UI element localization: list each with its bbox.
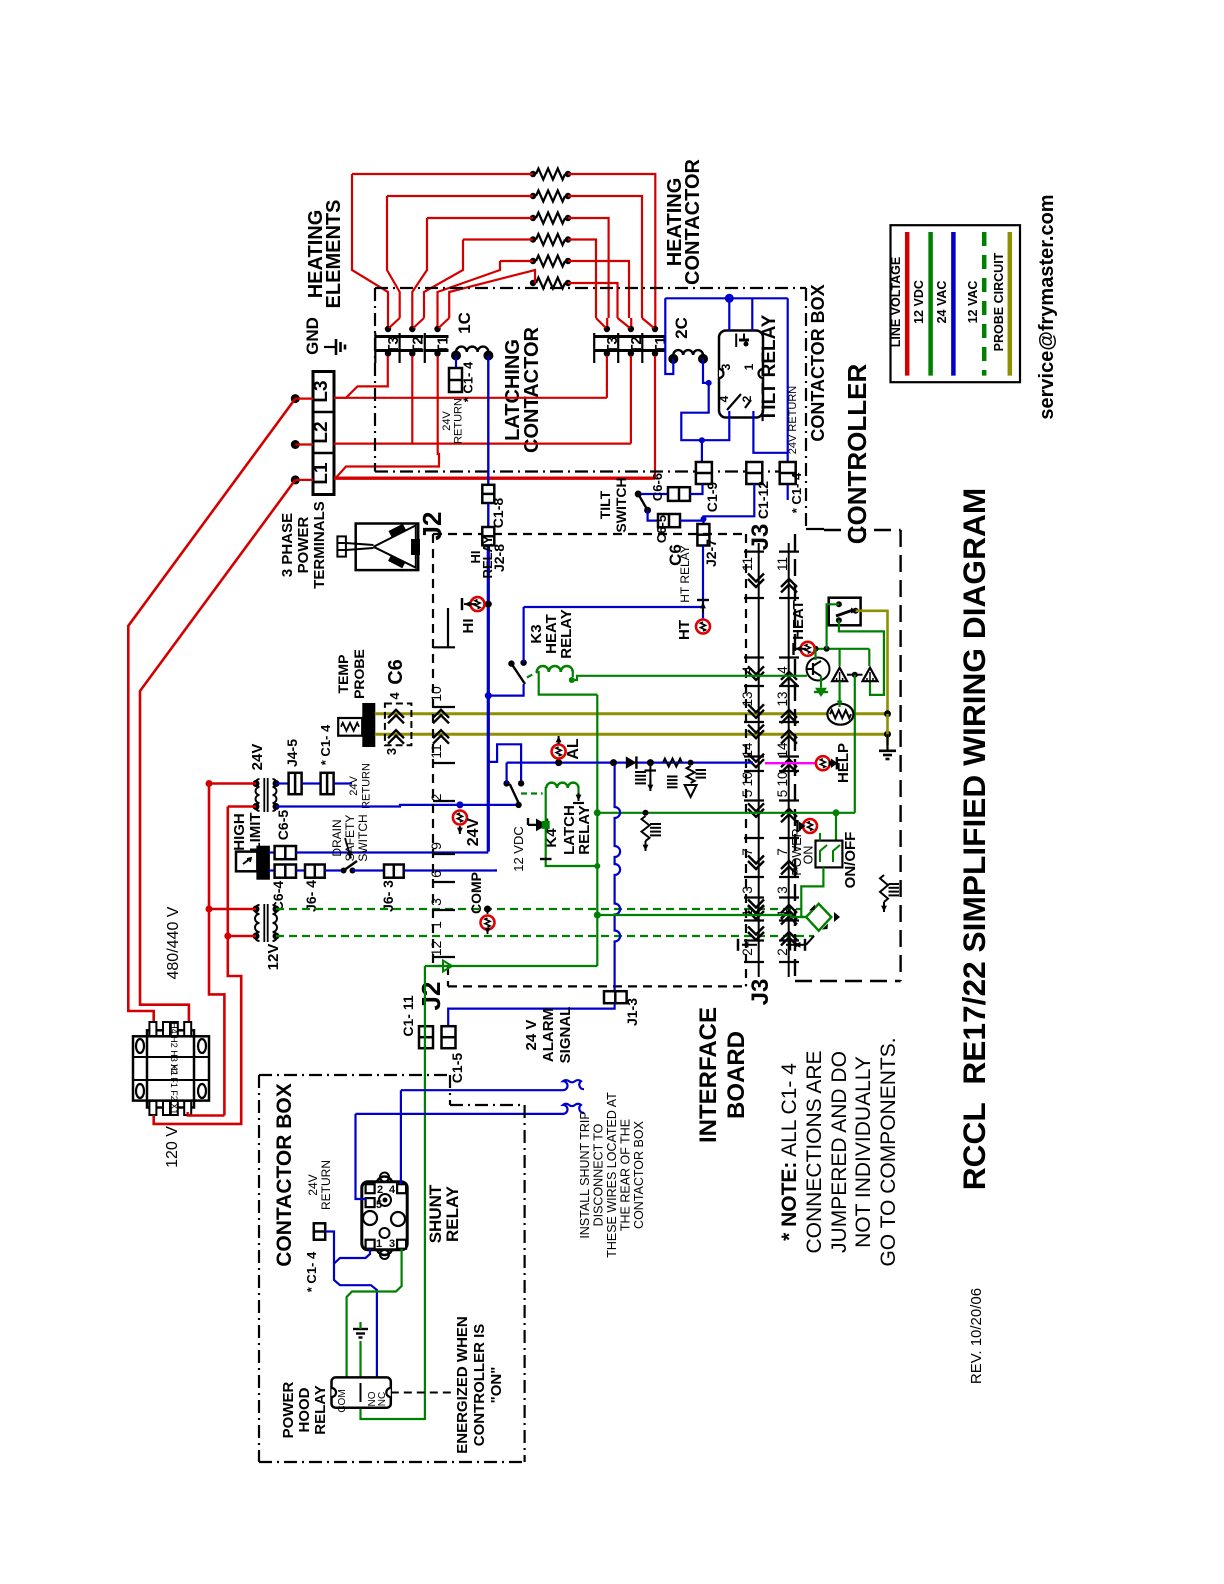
3 phase power terminals: [337, 536, 346, 556]
svg-text:5: 5: [376, 1199, 382, 1211]
bridge rectifier diamond: [806, 904, 831, 931]
dangle loads below diode row: [645, 769, 657, 771]
svg-text:11: 11: [775, 557, 790, 571]
K4 feed from main blue: [488, 744, 521, 783]
svg-text:1C: 1C: [455, 312, 474, 334]
wire alarm drop from diode row to J1-3: [615, 765, 621, 991]
wire K3 coil left to main green: [537, 672, 598, 695]
connector C1-8: [482, 485, 494, 503]
svg-text:BOARD: BOARD: [723, 1031, 750, 1119]
svg-text:HT RELAY: HT RELAY: [678, 545, 692, 603]
svg-text:3: 3: [389, 1238, 395, 1250]
svg-text:12 VDC: 12 VDC: [511, 826, 526, 872]
svg-text:12: 12: [428, 941, 444, 957]
tilt relay box: [719, 331, 763, 418]
ground symbol GND: [324, 346, 336, 348]
main blue 24V line: [487, 545, 490, 851]
wire 24VAC blue into tilt relay / 2C: [665, 297, 787, 299]
svg-text:LINE VOLTAGE: LINE VOLTAGE: [889, 257, 903, 348]
wire K3 coil to J3 pin4 green: [572, 676, 807, 680]
connector J2-8: [487, 503, 489, 527]
transformer 480/440V: [147, 1030, 194, 1107]
connector J4-5: [276, 782, 289, 784]
shunt relay body: [362, 1182, 407, 1250]
connector C1-11: [419, 1026, 433, 1048]
ground symbol (hood relay): [353, 1328, 368, 1330]
wire main green into power hood loop: [361, 1181, 425, 1419]
svg-text:RELAY: RELAY: [576, 805, 593, 854]
connector C6-4: [269, 869, 275, 871]
svg-text:C1-8: C1-8: [490, 498, 506, 529]
svg-text:24V: 24V: [465, 817, 482, 846]
svg-text:L3: L3: [311, 380, 332, 402]
node L3 dot: [291, 394, 300, 403]
connector C1-5: [442, 1026, 456, 1048]
svg-text:CONTACTOR BOX: CONTACTOR BOX: [808, 284, 828, 441]
callout dashed to ENERGIZED text: [391, 1392, 455, 1394]
power hood relay body: [332, 1377, 391, 1407]
svg-text:2: 2: [428, 793, 444, 801]
connector J2-7: [697, 524, 709, 546]
svg-text:J2-7: J2-7: [703, 539, 719, 567]
wire L1 heavy line to right T1: [334, 477, 655, 480]
svg-text:HOOD: HOOD: [296, 1387, 313, 1432]
svg-text:TILT RELAY: TILT RELAY: [759, 314, 780, 421]
svg-text:REV. 10/20/06: REV. 10/20/06: [968, 1288, 985, 1384]
wire 24V return via C1-4: [787, 298, 789, 462]
controller boundary: [794, 534, 796, 981]
wire L2 to left T2 and right T2: [411, 356, 413, 444]
LED 24V: [453, 811, 467, 825]
svg-text:ON/OFF: ON/OFF: [842, 832, 859, 889]
LED HI relay: [485, 601, 492, 608]
svg-text:12 VAC: 12 VAC: [966, 281, 980, 324]
svg-text:service@frymaster.com: service@frymaster.com: [1036, 194, 1058, 419]
svg-text:"ON": "ON": [488, 1367, 505, 1404]
L1 L2 L3 terminal block: [313, 372, 334, 495]
wire alarm to shunt terminals: [400, 1090, 402, 1184]
svg-text:14: 14: [775, 742, 790, 758]
node L1 dot: [291, 475, 300, 484]
svg-text:3: 3: [384, 748, 399, 755]
wire from triangles junction down to ON/OFF: [854, 675, 856, 813]
svg-text:10: 10: [428, 686, 444, 702]
coil K4: [546, 783, 578, 788]
wire heat relay contact to olive: [856, 611, 888, 714]
dangle load controller: [880, 875, 888, 902]
svg-text:DISCONNECT TO: DISCONNECT TO: [592, 1123, 606, 1226]
connector C1-4 (24V): [302, 782, 321, 784]
svg-text:24 V: 24 V: [523, 1020, 540, 1051]
wire drain switch line J2 pin 6: [404, 869, 496, 870]
wire AL LED row (J3 pin14): [507, 761, 753, 763]
wire heating elements right feeds: [568, 174, 655, 318]
green row to controller (J3 5/10): [594, 809, 601, 816]
wire 24VAC (2 row) across J2: [456, 801, 463, 808]
svg-text:24 VAC: 24 VAC: [935, 281, 949, 324]
triangles (diodes) T1 T2: [832, 668, 847, 682]
connector C1-9: [696, 462, 712, 484]
svg-text:RETURN: RETURN: [361, 763, 373, 809]
svg-text:11: 11: [740, 557, 755, 571]
main green vertical: [596, 695, 598, 966]
connector C6-5 (high limit): [269, 851, 275, 853]
svg-text:SWITCH: SWITCH: [356, 814, 370, 861]
svg-text:TERMINALS: TERMINALS: [311, 501, 328, 589]
svg-text:RETURN: RETURN: [319, 1160, 333, 1210]
svg-text:J1-3: J1-3: [624, 998, 640, 1026]
svg-text:COM: COM: [337, 1389, 348, 1412]
coil 1C latching contactor: [456, 347, 488, 352]
svg-text:J2: J2: [417, 512, 447, 541]
svg-text:4: 4: [717, 395, 731, 402]
connector J6-4: [296, 869, 305, 871]
LED POWER ON: [803, 819, 817, 833]
J2 connector boundary (interface board left): [432, 534, 434, 966]
thermistor circle on olive: [827, 704, 853, 725]
connector C1-4 (24V return): [780, 462, 796, 484]
svg-text:* C1- 4: * C1- 4: [304, 1251, 319, 1292]
svg-text:11: 11: [428, 744, 444, 759]
svg-text:1: 1: [376, 1238, 382, 1250]
olive junctions and ground: [884, 710, 891, 717]
svg-text:RCCL RE17/22 SIMPLIFIED WIRIN: RCCL RE17/22 SIMPLIFIED WIRING DIAGRAM: [956, 488, 992, 1190]
svg-text:L1: L1: [311, 462, 332, 485]
K3 heat relay switch: [485, 692, 492, 699]
wire K4 coil left to diode node: [546, 788, 598, 866]
svg-text:COMP: COMP: [468, 872, 484, 914]
svg-text:13: 13: [740, 691, 755, 706]
high limit: [236, 852, 257, 872]
svg-text:HT: HT: [676, 620, 693, 640]
svg-text:JUMPERED AND DO: JUMPERED AND DO: [828, 1051, 851, 1253]
svg-text:GO TO COMPONENTS.: GO TO COMPONENTS.: [877, 1037, 900, 1266]
svg-text:24V: 24V: [306, 1174, 320, 1195]
LED COMP: [484, 906, 491, 913]
wire ON/OFF to bridge: [801, 867, 823, 917]
legend box: [891, 225, 1021, 382]
svg-text:PROBE CIRCUIT: PROBE CIRCUIT: [992, 252, 1006, 351]
svg-text:C6-6: C6-6: [650, 473, 665, 501]
svg-text:HI: HI: [460, 619, 477, 634]
latching contactor contacts T3 T2 T1: [385, 326, 391, 332]
svg-text:TEMP: TEMP: [335, 655, 351, 694]
svg-text:POWER: POWER: [280, 1382, 297, 1439]
wire C6-5 to J2-7 node: [680, 519, 704, 521]
legend 12 VDC: [928, 232, 933, 376]
connector C6-6: [641, 493, 668, 495]
svg-text:RELAY: RELAY: [480, 535, 495, 578]
svg-text:CONTACTOR BOX: CONTACTOR BOX: [632, 1120, 646, 1229]
wire tilt relay pin2 to C1-4: [753, 411, 787, 453]
svg-text:CONTACTOR BOX: CONTACTOR BOX: [273, 1083, 296, 1267]
heating element resistor R6: [536, 278, 565, 289]
svg-text:3 PHASE: 3 PHASE: [279, 513, 296, 577]
svg-text:NC: NC: [377, 1392, 388, 1406]
svg-text:10: 10: [775, 771, 790, 786]
svg-text:HIGH: HIGH: [231, 813, 248, 851]
svg-text:7: 7: [775, 848, 790, 856]
tilt switch: [635, 491, 642, 498]
svg-text:5: 5: [775, 790, 790, 798]
wire C1-12 to J2-7 node: [704, 484, 755, 524]
svg-text:9: 9: [428, 842, 444, 850]
svg-text:10: 10: [740, 771, 755, 786]
transformer 12V: [255, 905, 260, 941]
svg-text:CONTROLLER: CONTROLLER: [842, 364, 872, 545]
wire shunt 3 green to hood relay COM: [347, 1249, 402, 1378]
svg-text:13: 13: [775, 691, 790, 706]
bridge output arrows: [834, 912, 840, 922]
svg-text:RETURN: RETURN: [453, 398, 465, 444]
wire L1 branch to left T1: [336, 356, 440, 478]
legend 12 VAC: [982, 232, 987, 376]
svg-text:HELP: HELP: [835, 743, 852, 783]
svg-text:TILT: TILT: [597, 490, 613, 519]
svg-text:2: 2: [740, 948, 755, 956]
svg-text:2: 2: [377, 1184, 383, 1196]
svg-text:* C1- 4: * C1- 4: [461, 361, 476, 402]
connector J6-3: [353, 869, 385, 871]
wire J1-3 to C1-5: [448, 1003, 614, 1026]
coil K3: [537, 666, 573, 672]
J3 pin2 black arrows: [742, 944, 757, 946]
connector C1-4 (latching coil): [455, 356, 457, 369]
heating element resistor R5: [536, 256, 565, 267]
svg-text:2: 2: [775, 948, 790, 956]
svg-text:C1-5: C1-5: [449, 1053, 465, 1084]
transformer 24V control: [256, 779, 260, 811]
svg-text:3: 3: [719, 363, 733, 370]
svg-text:PROBE: PROBE: [351, 649, 367, 699]
wire K4 coil right end return arrow: [577, 788, 579, 797]
svg-text:12V: 12V: [265, 944, 282, 971]
svg-text:C1-9: C1-9: [704, 482, 720, 513]
svg-text:C6-5: C6-5: [654, 515, 669, 543]
svg-text:SIGNAL: SIGNAL: [557, 1007, 574, 1064]
svg-text:POWER: POWER: [295, 517, 312, 574]
svg-text:3: 3: [428, 898, 444, 906]
wire C1-4 to shunt 1 and hood relay NO: [325, 1232, 334, 1264]
svg-text:3: 3: [775, 886, 790, 894]
ON/OFF switch: [833, 809, 840, 816]
probe circuit olive lines: [375, 712, 888, 715]
legend PROBE CIRCUIT: [1008, 232, 1013, 376]
svg-text:480/440 V: 480/440 V: [165, 906, 182, 979]
connector C6 (probe, dashed box): [385, 704, 412, 746]
wire heat relay bottom loop around triangle: [839, 620, 884, 695]
wire HT long blue line: [524, 606, 703, 608]
svg-text:DRAIN: DRAIN: [330, 819, 344, 856]
svg-text:* C1- 4: * C1- 4: [318, 724, 333, 765]
connector C6-5 (tilt): [648, 510, 658, 520]
wire tilt relay pin4 to C1-9: [702, 411, 729, 440]
svg-text:6: 6: [428, 870, 444, 878]
dangle load below green row: [643, 810, 649, 816]
wire 24VAC (2) to K4 pivot: continues right: [276, 805, 519, 807]
wire 2C coil right to C1-9: [703, 359, 709, 383]
svg-text:7: 7: [740, 848, 755, 856]
connector C1-12: [746, 462, 762, 484]
red bundle from L3/L1 to 480V transformer: [128, 399, 295, 1022]
node L2 dot: [291, 440, 300, 449]
J2 pin ticks and numbers: [447, 608, 449, 647]
svg-text:CONNECTIONS ARE: CONNECTIONS ARE: [803, 1050, 826, 1253]
svg-text:X2 F1 F2 X1: X2 F1 F2 X1: [169, 1064, 179, 1115]
wire HEAT led to relay box: [827, 604, 839, 649]
svg-text:RELAY: RELAY: [443, 1185, 462, 1242]
svg-text:J4-5: J4-5: [284, 739, 300, 767]
heating element resistor R1: [536, 169, 565, 180]
svg-text:1: 1: [742, 363, 756, 370]
svg-text:INSTALL SHUNT TRIP: INSTALL SHUNT TRIP: [578, 1111, 592, 1238]
svg-text:T1: T1: [435, 336, 452, 354]
contactor box boundary (dash-dot): [375, 287, 806, 289]
svg-text:12 VDC: 12 VDC: [912, 280, 926, 324]
svg-text:THE REAR OF THE: THE REAR OF THE: [619, 1119, 633, 1231]
svg-text:SWITCH: SWITCH: [613, 477, 629, 532]
wire high limit to J2 pin 9: [296, 851, 488, 853]
svg-text:J6- 3: J6- 3: [380, 880, 396, 912]
wire L3 to left T3 and right T3: [334, 356, 388, 398]
temp probe: [338, 718, 362, 736]
LED HELP + magenta: [765, 762, 830, 764]
wire 120V X1/X2 risers: [186, 1114, 188, 1117]
transistor symbol: [807, 658, 830, 681]
K4 latch relay switch: [503, 780, 509, 786]
svg-text:ON: ON: [802, 846, 816, 865]
svg-text:14: 14: [740, 742, 755, 758]
svg-text:5: 5: [740, 790, 755, 798]
wire J2-7 to HT relay junction: [702, 546, 704, 619]
wire heating elements left feeds: [352, 173, 533, 175]
contactor box (lower) boundary: [258, 1075, 260, 1462]
svg-text:C6-5: C6-5: [275, 810, 291, 841]
heating element resistor R3: [536, 213, 565, 224]
svg-text:C1-12: C1-12: [755, 481, 771, 519]
wire 12VAC dashed pair: [276, 908, 801, 910]
LED AL: [555, 759, 562, 766]
svg-text:J3: J3: [747, 524, 774, 551]
LED HEAT: [808, 648, 870, 650]
svg-text:C1- 11: C1- 11: [400, 995, 416, 1036]
svg-text:J2: J2: [416, 982, 446, 1011]
svg-text:J3: J3: [747, 979, 774, 1006]
svg-text:ELEMENTS: ELEMENTS: [323, 200, 345, 309]
svg-text:* C1- 4: * C1- 4: [789, 472, 804, 513]
svg-text:INTERFACE: INTERFACE: [695, 1007, 722, 1143]
svg-text:L2: L2: [311, 421, 332, 443]
wire main green to C1-11 and shunt relay: [425, 965, 597, 967]
heating contactor contacts T3 T2 T1: [604, 326, 610, 332]
svg-text:LIMIT: LIMIT: [247, 812, 264, 851]
wire latching coil blue to C1-8/J2-8: [487, 356, 489, 485]
svg-text:NOT INDIVIDUALLY: NOT INDIVIDUALLY: [852, 1056, 875, 1248]
drain safety switch: [325, 869, 344, 871]
connector C1-4 (shunt 24V return): [314, 1223, 325, 1239]
svg-text:SAFETY: SAFETY: [343, 815, 357, 862]
svg-text:24V RETURN: 24V RETURN: [787, 386, 799, 455]
svg-text:4: 4: [387, 692, 402, 700]
LED HT relay: [696, 620, 710, 634]
coil 2C heating contactor: [673, 350, 703, 355]
svg-text:J6- 4: J6- 4: [303, 880, 319, 912]
svg-text:HEAT: HEAT: [790, 600, 807, 640]
legend 24 VAC: [951, 232, 956, 376]
svg-text:24V: 24V: [441, 411, 453, 431]
connector J1-3: [604, 991, 627, 1003]
wire 24V alarm signal pair: [401, 1080, 584, 1090]
svg-text:THESE WIRES LOCATED AT: THESE WIRES LOCATED AT: [605, 1092, 619, 1258]
legend LINE VOLTAGE: [905, 232, 910, 376]
svg-text:2: 2: [740, 395, 754, 402]
svg-text:2C: 2C: [672, 317, 691, 339]
svg-text:4: 4: [389, 1184, 396, 1196]
heating element resistor R4: [536, 234, 565, 245]
svg-text:RELAY: RELAY: [558, 609, 575, 658]
svg-text:AL: AL: [565, 738, 582, 760]
svg-text:CONTACTOR: CONTACTOR: [521, 326, 543, 452]
diode row right of AL: [610, 759, 617, 766]
svg-text:* NOTE: ALL C1- 4: * NOTE: ALL C1- 4: [778, 1063, 801, 1241]
svg-text:GND: GND: [303, 317, 322, 355]
svg-text:3: 3: [740, 886, 755, 894]
J3 columns: [758, 543, 760, 977]
svg-text:ALARM: ALARM: [540, 1008, 557, 1062]
svg-text:24V: 24V: [249, 744, 266, 771]
svg-text:C6: C6: [385, 659, 407, 685]
svg-text:1: 1: [428, 921, 444, 929]
svg-text:CONTACTOR: CONTACTOR: [682, 158, 704, 284]
svg-text:24V: 24V: [348, 776, 360, 796]
heat relay contact box (controller): [829, 598, 861, 626]
heating element resistor R2: [536, 191, 565, 202]
wire green net around triangles: [827, 648, 870, 650]
12VDC diode into K4: [527, 818, 529, 825]
svg-text:RELAY: RELAY: [312, 1385, 329, 1434]
svg-text:CONTROLLER IS: CONTROLLER IS: [471, 1324, 488, 1447]
svg-text:ENERGIZED WHEN: ENERGIZED WHEN: [454, 1316, 471, 1454]
svg-text:120 V: 120 V: [164, 1126, 181, 1168]
svg-text:T1: T1: [652, 336, 669, 354]
wire green solid J3 pin1/3 row: [594, 912, 601, 919]
